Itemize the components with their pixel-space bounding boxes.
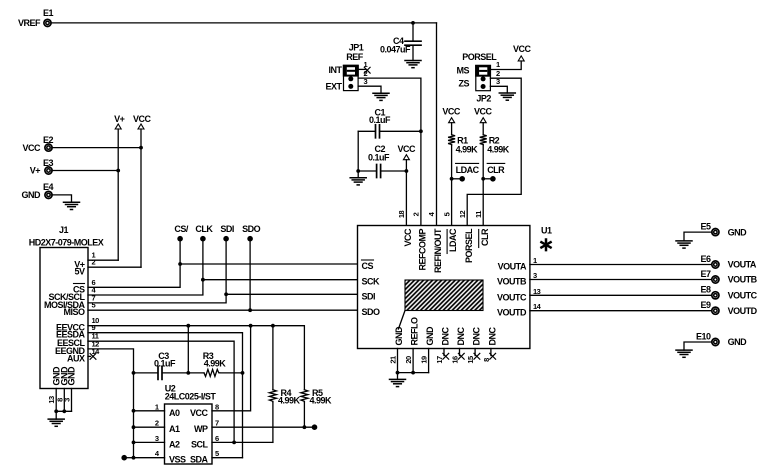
svg-text:HD2X7-079-MOLEX: HD2X7-079-MOLEX: [29, 238, 104, 248]
svg-text:SCL: SCL: [191, 439, 209, 449]
svg-text:8: 8: [482, 358, 491, 362]
svg-text:VCC: VCC: [133, 114, 152, 124]
svg-text:VSS: VSS: [169, 455, 186, 465]
svg-text:0.1uF: 0.1uF: [369, 115, 391, 125]
svg-text:3: 3: [496, 77, 500, 86]
svg-text:SDI: SDI: [362, 291, 376, 301]
svg-text:A1: A1: [169, 424, 180, 434]
svg-text:17: 17: [435, 356, 444, 364]
svg-text:VOUTD: VOUTD: [497, 308, 527, 318]
svg-text:J1: J1: [59, 225, 69, 235]
svg-text:E7: E7: [700, 269, 711, 279]
svg-text:SDO: SDO: [242, 224, 261, 234]
svg-text:VCC: VCC: [403, 228, 413, 247]
svg-text:4.99K: 4.99K: [310, 396, 333, 406]
svg-text:2: 2: [412, 212, 421, 216]
svg-text:VCC: VCC: [398, 144, 417, 154]
svg-text:VOUTC: VOUTC: [497, 292, 527, 302]
svg-text:A2: A2: [169, 439, 180, 449]
svg-text:VCC: VCC: [513, 44, 532, 54]
svg-text:E3: E3: [43, 158, 54, 168]
svg-text:24LC025-I/ST: 24LC025-I/ST: [165, 391, 217, 401]
svg-text:VOUTB: VOUTB: [497, 277, 527, 287]
svg-text:19: 19: [420, 356, 429, 364]
svg-text:REFCOMP: REFCOMP: [418, 229, 428, 271]
svg-text:8: 8: [215, 402, 219, 411]
svg-text:21: 21: [389, 356, 398, 364]
svg-text:E5: E5: [700, 221, 711, 231]
svg-text:E9: E9: [700, 300, 711, 310]
svg-text:VCC: VCC: [190, 408, 209, 418]
svg-text:3: 3: [155, 434, 159, 443]
svg-text:ZS: ZS: [458, 78, 469, 88]
svg-text:4.99K: 4.99K: [456, 145, 479, 155]
svg-text:2: 2: [155, 419, 159, 428]
svg-text:18: 18: [397, 211, 406, 219]
svg-text:2: 2: [92, 258, 96, 267]
svg-text:V+: V+: [114, 114, 125, 124]
svg-text:3: 3: [364, 77, 368, 86]
svg-text:JP1: JP1: [349, 43, 364, 53]
svg-text:GND: GND: [22, 190, 42, 200]
svg-text:GND: GND: [728, 337, 748, 347]
svg-text:V+: V+: [30, 166, 41, 176]
svg-text:6: 6: [215, 434, 219, 443]
svg-text:VCC: VCC: [22, 143, 41, 153]
svg-text:E1: E1: [43, 8, 54, 18]
svg-text:VCC: VCC: [442, 106, 461, 116]
svg-text:4.99K: 4.99K: [487, 145, 510, 155]
svg-text:GND: GND: [425, 326, 435, 346]
svg-text:DNC: DNC: [456, 327, 466, 346]
svg-text:5: 5: [92, 301, 96, 310]
svg-text:SDO: SDO: [362, 307, 381, 317]
svg-text:VOUTD: VOUTD: [728, 306, 758, 316]
svg-text:GND: GND: [67, 366, 77, 386]
svg-text:A0: A0: [169, 408, 180, 418]
svg-text:1: 1: [364, 60, 368, 69]
svg-text:5V: 5V: [74, 267, 85, 277]
svg-text:VOUTB: VOUTB: [728, 275, 758, 285]
svg-text:DNC: DNC: [441, 327, 451, 346]
svg-text:VOUTA: VOUTA: [728, 260, 757, 270]
svg-text:E8: E8: [700, 285, 711, 295]
svg-text:1: 1: [496, 60, 500, 69]
svg-text:VOUTC: VOUTC: [728, 291, 758, 301]
svg-text:MS: MS: [457, 65, 470, 75]
svg-text:CLK: CLK: [195, 224, 213, 234]
svg-text:3: 3: [533, 271, 537, 280]
svg-text:LDAC: LDAC: [448, 228, 458, 252]
svg-text:EXT: EXT: [325, 82, 342, 92]
svg-text:1: 1: [533, 256, 537, 265]
svg-text:PORSEL: PORSEL: [462, 52, 497, 62]
svg-text:DNC: DNC: [472, 327, 482, 346]
svg-text:REFIN/OUT: REFIN/OUT: [433, 228, 443, 273]
svg-text:16: 16: [451, 356, 460, 364]
svg-text:VCC: VCC: [474, 106, 493, 116]
svg-text:0.1uF: 0.1uF: [368, 153, 390, 163]
svg-text:SCK: SCK: [362, 277, 381, 287]
svg-text:U1: U1: [541, 226, 552, 236]
svg-text:4.99K: 4.99K: [204, 359, 227, 369]
svg-text:VREF: VREF: [18, 18, 41, 28]
svg-text:4.99K: 4.99K: [278, 396, 301, 406]
svg-text:20: 20: [404, 356, 413, 364]
svg-text:WP: WP: [194, 424, 208, 434]
svg-text:VOUTA: VOUTA: [498, 262, 527, 272]
svg-text:11: 11: [474, 211, 483, 218]
svg-text:5: 5: [215, 449, 219, 458]
svg-text:12: 12: [458, 211, 467, 219]
svg-text:REF: REF: [346, 52, 364, 62]
svg-text:CLR: CLR: [480, 228, 490, 246]
svg-text:0.047uF: 0.047uF: [380, 45, 411, 55]
svg-text:DNC: DNC: [488, 327, 498, 346]
svg-text:7: 7: [215, 419, 219, 428]
svg-text:CS: CS: [362, 261, 374, 271]
svg-text:15: 15: [466, 356, 475, 364]
svg-text:E10: E10: [696, 331, 711, 341]
svg-text:INT: INT: [329, 65, 343, 75]
svg-text:1: 1: [155, 402, 159, 411]
svg-text:E2: E2: [43, 135, 54, 145]
svg-text:PORSEL: PORSEL: [464, 228, 474, 263]
svg-text:LDAC: LDAC: [456, 165, 480, 175]
svg-text:JP2: JP2: [476, 93, 491, 103]
svg-text:SDI: SDI: [220, 224, 234, 234]
svg-text:AUX: AUX: [67, 353, 85, 363]
svg-text:SDA: SDA: [190, 455, 209, 465]
svg-text:CLR: CLR: [487, 165, 505, 175]
svg-text:REFLO: REFLO: [410, 317, 420, 345]
svg-text:GND: GND: [728, 227, 748, 237]
svg-text:E4: E4: [43, 182, 54, 192]
svg-text:3: 3: [63, 398, 72, 402]
svg-text:MISO: MISO: [63, 307, 85, 317]
svg-text:5: 5: [442, 212, 451, 216]
svg-text:13: 13: [533, 287, 541, 296]
svg-text:E6: E6: [700, 254, 711, 264]
svg-text:CS/: CS/: [174, 224, 189, 234]
